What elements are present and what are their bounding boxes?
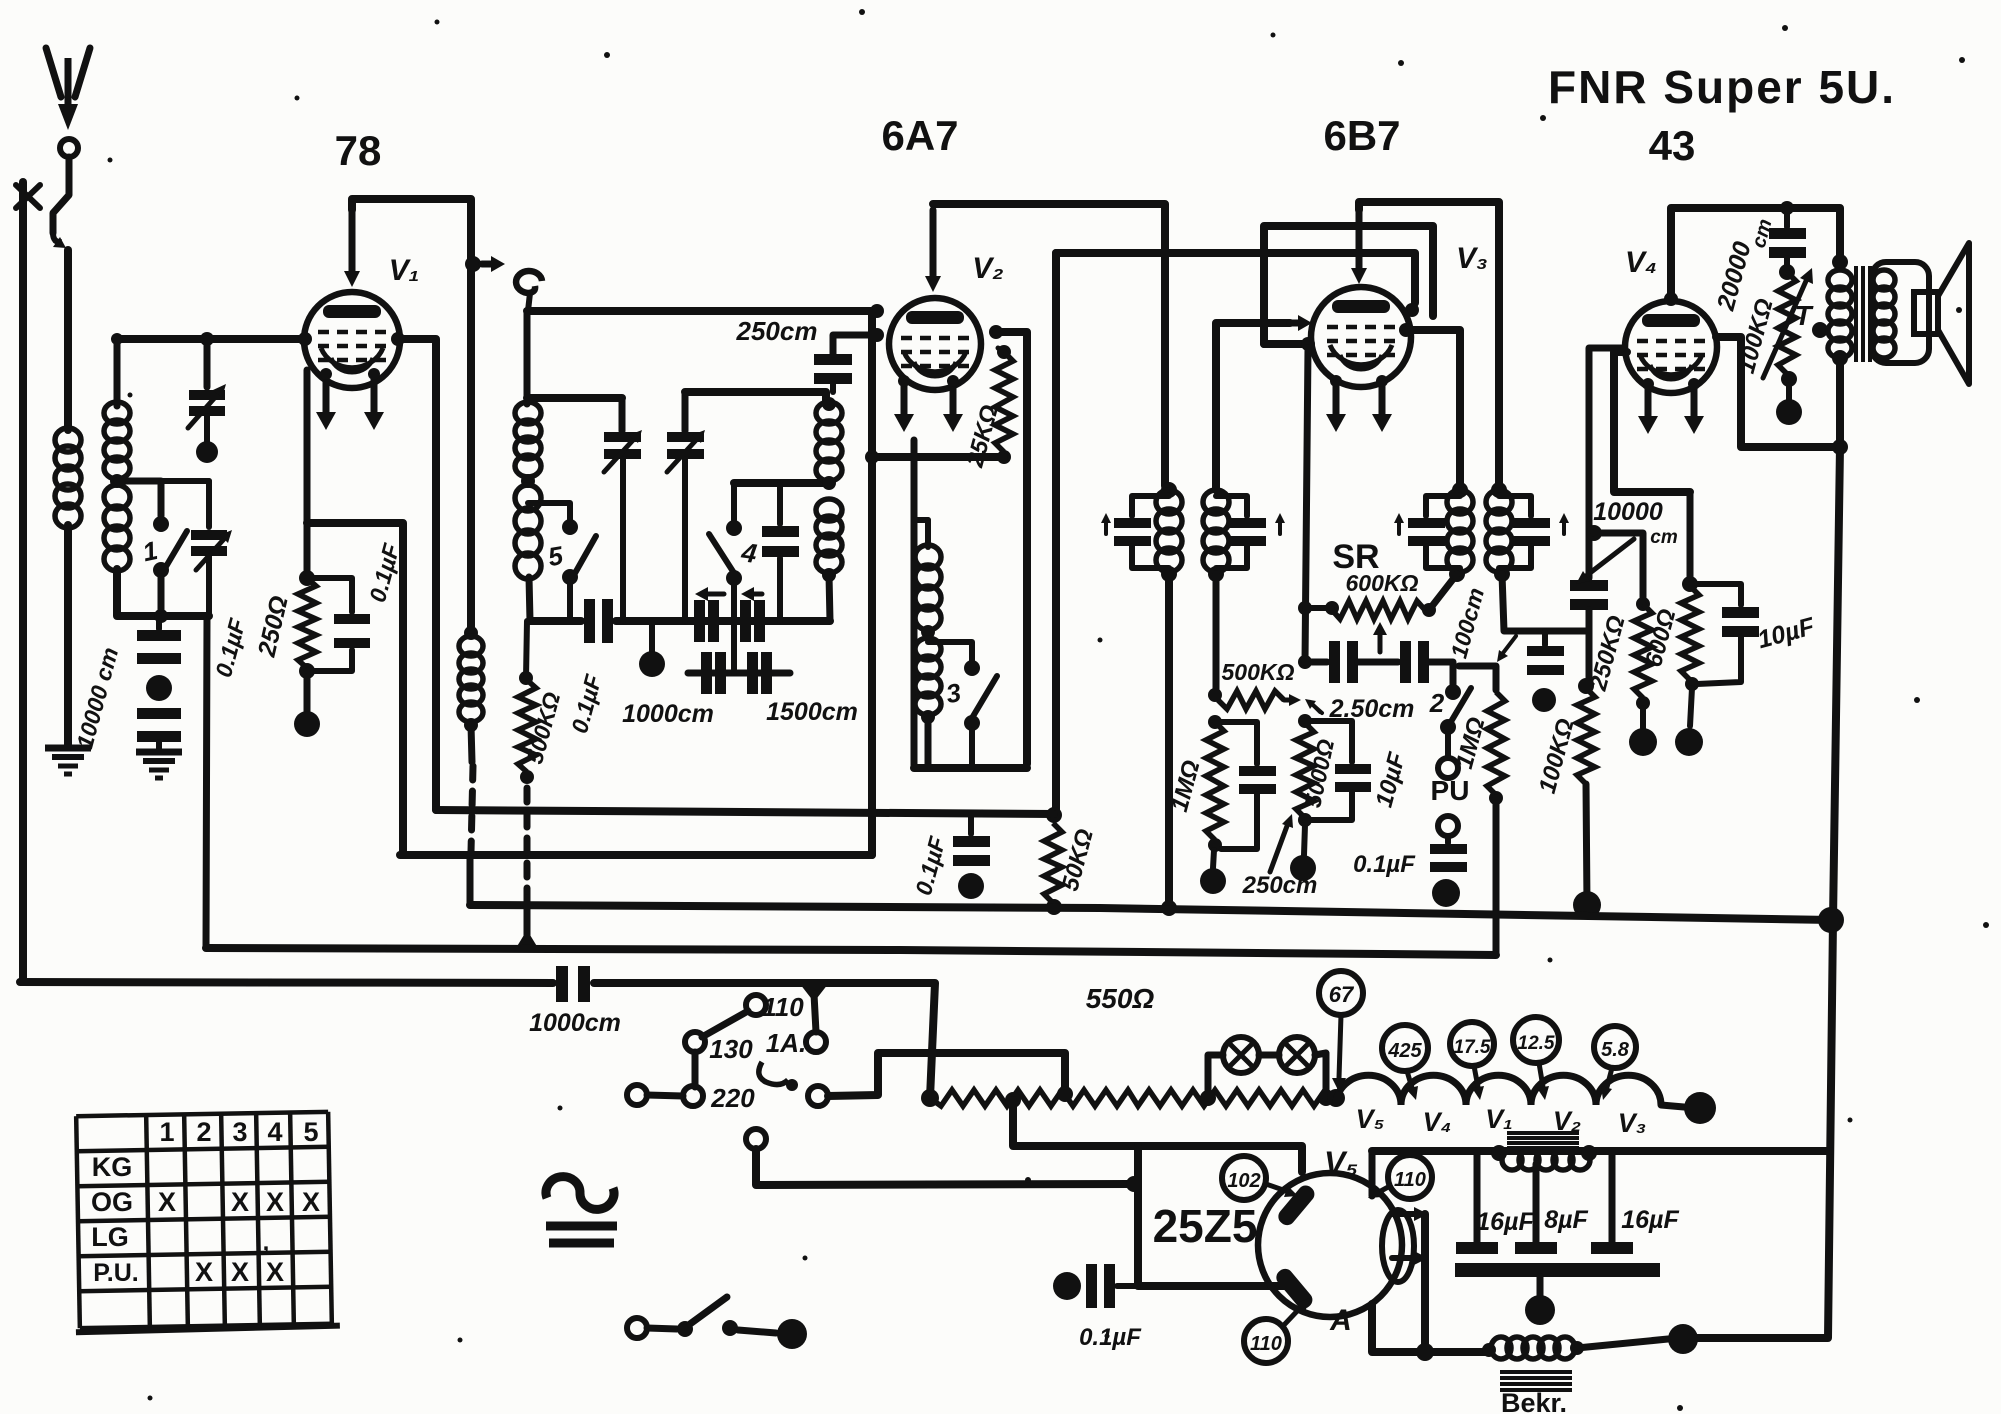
capacitor IF1 secondary <box>1216 496 1285 568</box>
capacitor IF2 primary <box>1394 496 1460 568</box>
svg-text:X: X <box>266 1257 284 1287</box>
coil osc feedback upper <box>914 520 941 630</box>
node V2 right pins <box>989 325 1003 339</box>
wire box arrow to grid <box>1264 340 1303 348</box>
terminal right lower <box>808 1086 828 1106</box>
choke coil <box>1491 1145 1597 1170</box>
wire 25Z5 cathode arrows <box>1392 1207 1428 1265</box>
node 100KΩ top <box>1578 678 1594 694</box>
label 16µF a <box>1476 1208 1534 1236</box>
capacitor 10000cm <box>1570 580 1608 686</box>
svg-text:12.5: 12.5 <box>1518 1033 1555 1054</box>
label 1000cm <box>622 700 714 728</box>
svg-text:550Ω: 550Ω <box>1086 983 1155 1014</box>
wire IF2 sec bottom to 100cm <box>1502 574 1589 631</box>
transformer output primary <box>1828 270 1852 358</box>
wire bus B left stub <box>467 855 474 905</box>
label 100KΩ tone <box>1733 296 1779 377</box>
label V1 heater <box>1485 1104 1513 1134</box>
svg-text:P.U.: P.U. <box>93 1259 138 1287</box>
label PU <box>1431 775 1470 806</box>
terminal aerial lower <box>746 1129 766 1149</box>
capacitor IF1 primary <box>1101 496 1169 568</box>
capacitor 0.1µF V1 cathode <box>307 578 370 671</box>
IF1 secondary coil <box>1203 490 1229 582</box>
tube V5 (25Z5) <box>1258 1173 1414 1317</box>
wire mid to 220 <box>692 1052 699 1087</box>
resistor 250Ω <box>298 578 316 668</box>
label A <box>1329 1304 1352 1337</box>
capacitor 100cm <box>1527 631 1564 712</box>
ground antenna <box>45 748 91 774</box>
wire 25Z5 right drop <box>1372 1151 1434 1361</box>
wire 1MΩ PU branch <box>1459 666 1496 690</box>
label 8µF <box>1544 1206 1588 1234</box>
callout 425 <box>1382 1025 1428 1100</box>
pilot lamp wire <box>1208 1053 1326 1098</box>
gang capacitor lower sections <box>688 652 790 694</box>
terminal PU top <box>1438 758 1458 778</box>
label 1500cm <box>766 698 858 726</box>
coil ant secondary upper <box>104 402 130 479</box>
terminal right upper <box>806 1032 826 1052</box>
dashed gang link right <box>524 788 531 898</box>
svg-text:1000cm: 1000cm <box>622 700 714 728</box>
callout 175 <box>1450 1022 1494 1100</box>
transformer output secondary <box>1873 270 1895 358</box>
svg-text:X: X <box>195 1257 213 1287</box>
label 100cm <box>1445 585 1516 662</box>
node 1MΩ AVC terminal <box>1200 850 1226 894</box>
terminal 110 <box>746 992 804 1022</box>
node osc feedback tap <box>921 625 935 639</box>
wire right B+ rail <box>1694 447 1840 1338</box>
label V4 heater <box>1423 1107 1452 1137</box>
terminal mid <box>685 1032 705 1052</box>
wire V2 cathode left drop <box>865 313 879 855</box>
node V1 cathode junction <box>299 570 315 586</box>
wire V1 plate box <box>344 199 481 630</box>
wire V3 cathode drop <box>1298 348 1312 662</box>
wire V2 anode-grid to osc <box>996 332 1027 764</box>
cathode arrows V4 <box>1638 378 1704 434</box>
resistor 1MΩ AVC <box>1206 715 1224 852</box>
node coil tap junction <box>110 474 124 488</box>
label 1MΩ AVC <box>1166 757 1206 815</box>
wire left pair <box>647 1095 683 1096</box>
wire 25KΩ bottom <box>872 453 1004 461</box>
wire V2 plate top line <box>925 204 1165 486</box>
table X marks <box>158 1187 320 1287</box>
terminal PU bottom <box>1438 816 1458 836</box>
wire V4 grid drop <box>1586 348 1623 578</box>
gang capacitor upper sections <box>694 600 765 642</box>
svg-text:16µF: 16µF <box>1621 1206 1679 1234</box>
arrow 250cm <box>1270 814 1293 872</box>
wire selector to rheostat <box>828 1053 1065 1096</box>
node cathode terminal dot <box>294 711 320 737</box>
capacitor 250cm <box>814 335 873 392</box>
capacitor 0.1µF mains <box>1053 1264 1138 1308</box>
node sw1 bottom junction <box>154 609 168 623</box>
capacitor 1000cm mains <box>556 966 590 1002</box>
wire filter top line <box>1372 1147 1830 1155</box>
node V3 pins <box>1301 323 1413 351</box>
tube V2 (6A7) <box>889 298 981 390</box>
svg-text:X: X <box>158 1187 176 1217</box>
label V5 rect <box>1324 1145 1358 1181</box>
wire osc coil bottom <box>829 575 830 621</box>
svg-text:600KΩ: 600KΩ <box>1346 570 1419 596</box>
resistor 600Ω <box>1681 492 1699 691</box>
svg-text:0.1µF: 0.1µF <box>1079 1324 1142 1351</box>
node 5000Ω terminal <box>1290 825 1316 881</box>
switch 1 <box>117 481 187 616</box>
wire V1 plate to decoupling <box>398 339 436 810</box>
wire V1 grid line <box>111 332 305 346</box>
coil osc feedback lower <box>915 638 941 724</box>
cathode arrows V1 <box>316 368 384 430</box>
resistor 50KΩ <box>1044 823 1062 903</box>
svg-text:3: 3 <box>232 1117 247 1147</box>
capacitor 10µF V4 <box>1690 584 1759 684</box>
node 250Ω bottom <box>299 663 315 714</box>
svg-text:X: X <box>231 1187 249 1217</box>
resistor 25KΩ <box>995 345 1013 464</box>
filter common plate <box>1455 1263 1660 1325</box>
label 600KΩ <box>1346 570 1419 596</box>
wire 500KΩ top <box>526 621 527 678</box>
coil oscillator upper <box>816 397 842 481</box>
node box left junction <box>1126 1176 1142 1192</box>
ground 10000cm chain <box>136 752 182 778</box>
resistor SR 600KΩ <box>1305 601 1436 619</box>
capacitor 8µF <box>1515 1164 1557 1254</box>
wire bus D <box>20 982 935 1098</box>
wire SR right to IF2 <box>1429 574 1457 610</box>
label 78 <box>335 127 382 174</box>
resistor 5000Ω <box>1296 714 1314 827</box>
wire osc section vertical <box>911 440 918 768</box>
coil RF grid lower <box>515 485 541 579</box>
svg-text:110: 110 <box>1250 1333 1282 1355</box>
node tone terminal <box>1776 385 1802 425</box>
wire bus A screen <box>436 810 1054 814</box>
svg-text:PU: PU <box>1431 775 1470 806</box>
coil oscillator lower <box>816 499 842 582</box>
label V5 heater <box>1356 1104 1385 1134</box>
label 10000 cm <box>71 645 123 752</box>
label 10µF V4 <box>1755 612 1818 654</box>
dashed gang link left <box>471 766 473 852</box>
wire bus B <box>470 905 1844 933</box>
label V3 <box>1456 242 1488 275</box>
tube V3 (6B7) <box>1311 287 1411 387</box>
label SR <box>1332 538 1379 576</box>
heater chain humps <box>1336 1075 1684 1107</box>
wire 6A7 grid top line <box>527 307 877 315</box>
callout 110 bottom <box>1244 1298 1310 1363</box>
node cathode caps junction <box>1298 655 1312 669</box>
table header numbers <box>159 1117 318 1147</box>
wire antenna coil to ground <box>64 525 72 745</box>
wire 25Z5 bottom to Bekr <box>1372 1304 1489 1352</box>
label V3 heater <box>1618 1108 1647 1138</box>
callout 125 <box>1513 1017 1559 1100</box>
field core <box>1500 1372 1572 1390</box>
svg-text:,: , <box>263 1229 270 1256</box>
arrow SR wiper <box>1373 622 1387 652</box>
svg-text:X: X <box>302 1187 320 1217</box>
svg-text:43: 43 <box>1649 122 1696 169</box>
svg-text:KG: KG <box>92 1152 133 1182</box>
tube V4 (43) <box>1625 292 1717 393</box>
wire antenna lead-in <box>53 157 69 430</box>
grid cap curl 6A7 <box>516 271 542 311</box>
label 130 <box>709 1034 753 1064</box>
svg-text:FNR Super 5U.: FNR Super 5U. <box>1548 61 1896 113</box>
wire tuning line left <box>530 617 581 625</box>
resistor 500KΩ AVC <box>1218 691 1301 709</box>
svg-text:110: 110 <box>1394 1169 1426 1191</box>
node tuning line terminal <box>639 621 665 677</box>
switch 3 <box>928 642 997 768</box>
gang capacitor arrows <box>695 587 762 601</box>
label 250cm AVC <box>1242 872 1318 899</box>
wire tuning line mid <box>616 617 830 625</box>
trimmer capacitor osc 2 <box>667 392 705 621</box>
svg-text:OG: OG <box>91 1187 133 1217</box>
table row labels <box>91 1152 139 1287</box>
label 0.1µF mains <box>1079 1324 1142 1351</box>
capacitor 2.50cm pair <box>1305 641 1453 685</box>
switch 2 <box>1429 684 1471 757</box>
label 25KΩ <box>961 402 1004 471</box>
svg-text:1000cm: 1000cm <box>529 1009 621 1037</box>
node selector feed <box>800 984 828 1032</box>
IF1 primary coil <box>1156 482 1182 582</box>
IF2 secondary coil <box>1486 482 1512 582</box>
label 100KΩ grid <box>1534 716 1580 797</box>
svg-text:220: 220 <box>710 1083 755 1113</box>
label 0.1µF left <box>210 615 251 680</box>
wire PB to 25Z5 box <box>756 1149 1130 1185</box>
svg-text:67: 67 <box>1329 982 1355 1007</box>
wire switch4 top line <box>734 479 829 487</box>
wire osc grid line <box>527 394 622 402</box>
capacitor 10µF <box>1305 721 1371 820</box>
table grid <box>72 1112 340 1333</box>
wire V1 cathode down <box>307 370 403 855</box>
svg-text:500KΩ: 500KΩ <box>1222 659 1295 685</box>
svg-text:T: T <box>1794 300 1814 331</box>
node osc coil tap <box>822 476 836 490</box>
label T <box>1794 300 1828 338</box>
DC bars symbol <box>546 1226 617 1243</box>
capacitor 10000cm series pair <box>137 616 181 750</box>
wire osc coil top line <box>685 392 826 404</box>
label Bekr <box>1501 1388 1567 1414</box>
svg-text:A: A <box>1329 1304 1352 1337</box>
svg-text:V₃: V₃ <box>1618 1108 1647 1138</box>
svg-text:2: 2 <box>196 1117 211 1147</box>
pilot lamp 2 <box>1279 1037 1315 1073</box>
wire 250KΩ branch <box>1594 533 1650 611</box>
label 5000Ω <box>1299 737 1339 810</box>
wire earth line left edge <box>19 182 27 982</box>
capacitor 0.1µF series <box>584 599 613 643</box>
wire V4 screen drop <box>1614 352 1690 492</box>
capacitor padder sw1 <box>161 481 232 616</box>
svg-text:V₃: V₃ <box>1456 242 1488 275</box>
svg-text:X: X <box>231 1257 249 1287</box>
label 25Z5 <box>1153 1200 1258 1252</box>
coil osc pickup <box>459 626 483 762</box>
label V2 <box>972 252 1003 285</box>
label 10µF <box>1371 749 1412 811</box>
label 250KΩ <box>1585 613 1631 695</box>
svg-text:Bekr.: Bekr. <box>1501 1388 1567 1414</box>
wire transformer bottom <box>1832 350 1848 455</box>
capacitor 250cm AVC <box>1215 722 1276 849</box>
wire IF1 secondary top to 6B7 <box>1216 315 1312 490</box>
callout 58 <box>1594 1026 1636 1100</box>
svg-text:0.1µF: 0.1µF <box>1353 851 1416 878</box>
antenna <box>46 48 90 157</box>
svg-text:6B7: 6B7 <box>1323 112 1400 159</box>
svg-text:425: 425 <box>1387 1040 1422 1062</box>
wire V4 plate return <box>1716 337 1840 447</box>
svg-text:X: X <box>266 1187 284 1217</box>
AC sine symbol <box>546 1177 614 1210</box>
wire IF1 primary bottom <box>1161 574 1177 916</box>
label 600Ω <box>1640 606 1681 670</box>
svg-text:V₁: V₁ <box>389 254 420 287</box>
wire bus A2 cathode <box>400 851 872 859</box>
svg-text:4: 4 <box>267 1117 282 1147</box>
svg-text:16µF: 16µF <box>1476 1208 1534 1236</box>
label V2 heater <box>1553 1106 1581 1136</box>
capacitor 16µF a <box>1456 1151 1498 1254</box>
selector blade <box>702 1011 748 1037</box>
wire grid coil drop <box>524 311 531 404</box>
wire osc bottom bracket <box>914 717 1027 768</box>
wire bus C <box>206 948 1496 955</box>
svg-text:8µF: 8µF <box>1544 1206 1588 1234</box>
label 250cm top <box>736 316 818 346</box>
label 10000 cm grid <box>1576 498 1678 584</box>
node heater chain start <box>1327 1089 1345 1107</box>
wire coil bottom <box>117 339 209 616</box>
svg-text:V₅: V₅ <box>1356 1104 1385 1134</box>
svg-text:25Z5: 25Z5 <box>1153 1200 1258 1252</box>
wire 100KΩ to bus <box>1573 784 1601 919</box>
coil RF grid upper <box>515 402 541 477</box>
label 550Ω <box>1086 983 1155 1014</box>
capacitor IF2 secondary <box>1499 496 1569 568</box>
label 43 <box>1649 122 1696 169</box>
callout 110 top <box>1368 1155 1432 1199</box>
capacitor 16µF b <box>1591 1151 1633 1254</box>
svg-text:1A.: 1A. <box>766 1028 806 1058</box>
svg-text:1: 1 <box>159 1117 174 1147</box>
wire RF coil bottom <box>529 577 530 621</box>
wire Bekr to terminal <box>1577 1324 1698 1354</box>
svg-text:5.8: 5.8 <box>1601 1039 1630 1061</box>
capacitor 20000cm <box>1769 201 1806 280</box>
label 0.1µF V1 cathode <box>364 540 405 605</box>
field coil Bekr <box>1482 1337 1584 1359</box>
svg-text:1500cm: 1500cm <box>766 698 858 726</box>
svg-text:6A7: 6A7 <box>881 112 958 159</box>
svg-text:V₄: V₄ <box>1423 1107 1452 1137</box>
wire 6B7 grid feed line <box>1056 253 1419 317</box>
callout 67 <box>1319 971 1363 1092</box>
svg-text:102: 102 <box>1227 1170 1260 1192</box>
node 600Ω top <box>1682 576 1698 592</box>
speaker <box>1872 243 1969 384</box>
wire 1MΩ PU to bus <box>1493 798 1500 953</box>
label 6A7 <box>881 112 958 159</box>
label 50KΩ <box>1057 826 1099 894</box>
wire IF1 sec bottom AVC <box>1208 574 1222 702</box>
svg-text:V₂: V₂ <box>972 252 1003 285</box>
node RF coil tap <box>521 474 535 488</box>
label 1A <box>766 1028 806 1058</box>
label 1000cm mains <box>529 1009 621 1037</box>
coil ant secondary lower <box>104 485 130 571</box>
wire V3 diode plate to IF2 <box>1406 330 1460 486</box>
mains switch <box>627 1297 807 1349</box>
switch 4 <box>709 483 759 673</box>
svg-text:110: 110 <box>762 992 804 1022</box>
node 250KΩ terminal <box>1629 708 1657 756</box>
wire V3 plate line <box>1351 202 1499 486</box>
rheostat 550Ω <box>921 1086 1336 1108</box>
resistor 1MΩ PU <box>1487 692 1505 805</box>
switch 5 <box>528 503 596 621</box>
wire 6B7 box <box>1264 226 1433 344</box>
fuse curl <box>759 1062 798 1091</box>
capacitor fixed osc <box>762 483 799 621</box>
svg-text:130: 130 <box>709 1034 753 1064</box>
label V1 <box>389 254 420 287</box>
IF2 primary coil <box>1447 482 1473 582</box>
pilot lamp 1 <box>1223 1037 1259 1073</box>
svg-text:250cm: 250cm <box>736 316 818 346</box>
label 2.50cm <box>1305 695 1414 723</box>
svg-text:cm: cm <box>1650 527 1678 548</box>
callout 102 <box>1222 1156 1298 1200</box>
resistor 250KΩ <box>1634 604 1652 710</box>
svg-text:LG: LG <box>91 1222 129 1252</box>
label 1MΩ PU <box>1451 714 1491 772</box>
label 0.1µF PU <box>1353 851 1416 878</box>
cathode arrows V3 <box>1326 375 1392 432</box>
capacitor 0.1µF V2 <box>953 814 990 899</box>
label 500KΩ AVC <box>1222 659 1295 685</box>
node V1 grid pin <box>298 332 312 346</box>
terminal 220 <box>683 1083 755 1113</box>
wire rheostat tap to 25Z5 line <box>1013 1100 1302 1172</box>
node V1 plate pin <box>391 332 405 346</box>
trimmer capacitor ant <box>188 339 226 442</box>
svg-text:17.5: 17.5 <box>1454 1037 1491 1058</box>
wire trimmer to bus C <box>206 616 207 948</box>
svg-text:V₁: V₁ <box>1485 1104 1513 1134</box>
label 0.1µF V2 <box>910 833 951 898</box>
resistor 500KΩ grid leak <box>518 671 536 784</box>
